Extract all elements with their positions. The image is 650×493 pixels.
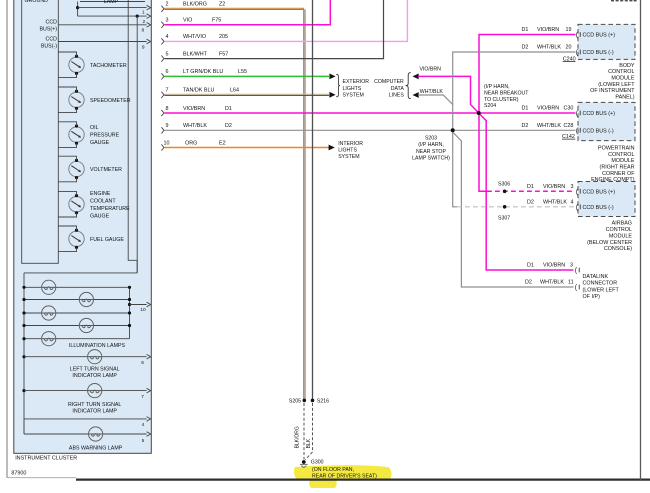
svg-text:MODULE: MODULE	[609, 233, 632, 239]
svg-text:BLK: BLK	[306, 438, 312, 448]
svg-text:WHT/BLK: WHT/BLK	[183, 123, 207, 129]
svg-text:PANEL): PANEL)	[615, 94, 634, 100]
svg-text:TO CLUSTER): TO CLUSTER)	[484, 97, 519, 103]
svg-text:INDICATOR LAMP: INDICATOR LAMP	[72, 373, 117, 379]
svg-text:LINES: LINES	[389, 93, 405, 99]
svg-text:(LOWER LEFT: (LOWER LEFT	[583, 287, 620, 293]
svg-text:S204: S204	[484, 103, 496, 109]
svg-text:CCD: CCD	[46, 36, 58, 42]
svg-text:D2: D2	[522, 45, 529, 51]
svg-text:TACHOMETER: TACHOMETER	[90, 63, 127, 69]
svg-text:ORG: ORG	[185, 140, 197, 146]
svg-text:OIL: OIL	[90, 125, 99, 131]
svg-text:VIO: VIO	[183, 18, 192, 24]
svg-text:GAUGE: GAUGE	[90, 213, 110, 219]
svg-text:G300: G300	[311, 459, 324, 465]
svg-text:LIGHTS: LIGHTS	[338, 148, 357, 154]
svg-text:PRESSURE: PRESSURE	[90, 133, 120, 139]
svg-text:SYSTEM: SYSTEM	[343, 93, 364, 99]
svg-text:LT GRN/DK BLU: LT GRN/DK BLU	[183, 69, 223, 75]
svg-text:9: 9	[166, 123, 169, 129]
svg-text:OF I/P): OF I/P)	[583, 294, 601, 300]
svg-text:CONTROL: CONTROL	[608, 69, 634, 75]
svg-text:COMPUTER: COMPUTER	[374, 79, 404, 85]
svg-text:(BELOW CENTER: (BELOW CENTER	[587, 240, 632, 246]
svg-text:POWERTRAIN: POWERTRAIN	[598, 146, 635, 152]
svg-text:CONTROL: CONTROL	[608, 152, 634, 158]
svg-text:2: 2	[166, 2, 169, 8]
svg-text:L55: L55	[238, 69, 247, 75]
svg-text:BUS(+): BUS(+)	[39, 27, 57, 33]
svg-text:10: 10	[164, 140, 170, 146]
svg-text:BODY: BODY	[619, 63, 635, 69]
svg-text:S203: S203	[425, 136, 437, 142]
svg-text:LAMP: LAMP	[104, 0, 119, 5]
svg-text:CCD BUS (-): CCD BUS (-)	[583, 205, 614, 211]
svg-text:LIGHTS: LIGHTS	[343, 86, 362, 92]
svg-text:VIO/BRN: VIO/BRN	[537, 106, 559, 112]
svg-text:D1: D1	[527, 263, 534, 269]
svg-text:BLK/ORG: BLK/ORG	[295, 426, 301, 448]
svg-text:D1: D1	[225, 106, 232, 112]
svg-text:SPEEDOMETER: SPEEDOMETER	[90, 98, 131, 104]
svg-text:CCD BUS (+): CCD BUS (+)	[583, 111, 616, 117]
svg-text:WHT/BLK: WHT/BLK	[543, 200, 567, 206]
svg-text:D1: D1	[522, 106, 529, 112]
svg-text:NEAR STOP: NEAR STOP	[416, 149, 446, 155]
svg-text:10: 10	[140, 307, 146, 313]
svg-text:7: 7	[141, 394, 144, 400]
svg-text:D2: D2	[225, 123, 232, 129]
svg-text:REAR OF DRIVER'S SEAT): REAR OF DRIVER'S SEAT)	[312, 473, 377, 479]
svg-text:CCD BUS (+): CCD BUS (+)	[583, 33, 616, 39]
svg-text:D1: D1	[527, 184, 534, 190]
svg-text:BUS(-): BUS(-)	[41, 43, 57, 49]
svg-text:TEMPERATURE: TEMPERATURE	[90, 206, 130, 212]
svg-text:Z2: Z2	[219, 2, 225, 8]
svg-text:GAUGE: GAUGE	[90, 140, 110, 146]
svg-text:5: 5	[142, 438, 145, 444]
svg-text:MODULE: MODULE	[611, 76, 634, 82]
svg-text:LEFT TURN SIGNAL: LEFT TURN SIGNAL	[70, 367, 120, 373]
svg-text:BLK/ORG: BLK/ORG	[183, 2, 207, 8]
svg-text:205: 205	[219, 34, 228, 40]
svg-text:9: 9	[142, 44, 145, 50]
svg-text:1: 1	[142, 10, 145, 16]
svg-text:CORNER OF: CORNER OF	[602, 171, 635, 177]
svg-text:4: 4	[166, 34, 169, 40]
svg-text:WHT/BLK: WHT/BLK	[540, 280, 564, 286]
svg-text:CONNECTOR: CONNECTOR	[583, 281, 618, 287]
svg-text:(I/P HARN,: (I/P HARN,	[418, 142, 444, 148]
svg-text:(ON FLOOR PAN,: (ON FLOOR PAN,	[312, 467, 354, 473]
svg-text:WHT/BLK: WHT/BLK	[537, 45, 561, 51]
svg-text:TAN/DK BLU: TAN/DK BLU	[183, 88, 214, 94]
svg-text:LAMP SWITCH): LAMP SWITCH)	[412, 155, 450, 161]
svg-text:BLK/WHT: BLK/WHT	[183, 51, 208, 57]
svg-text:(I/P HARN,: (I/P HARN,	[484, 84, 510, 90]
svg-text:11: 11	[568, 280, 574, 286]
svg-text:8: 8	[141, 27, 144, 33]
svg-text:VIO/BRN: VIO/BRN	[543, 263, 565, 269]
svg-text:CCD BUS (-): CCD BUS (-)	[583, 129, 614, 135]
svg-text:7: 7	[166, 88, 169, 94]
svg-text:DATALINK: DATALINK	[583, 274, 609, 280]
svg-text:CONSOLE): CONSOLE)	[604, 246, 632, 252]
svg-text:ILLUMINATION LAMPS: ILLUMINATION LAMPS	[69, 343, 126, 349]
svg-text:4: 4	[142, 422, 145, 428]
svg-text:5: 5	[166, 51, 169, 57]
svg-text:CCD: CCD	[46, 20, 58, 26]
svg-text:D2: D2	[525, 280, 532, 286]
svg-text:S307: S307	[498, 216, 510, 222]
svg-text:WHT/VIO: WHT/VIO	[183, 34, 206, 40]
svg-text:C28: C28	[564, 123, 574, 129]
svg-text:S205: S205	[289, 399, 301, 405]
svg-text:RIGHT TURN SIGNAL: RIGHT TURN SIGNAL	[68, 402, 121, 408]
svg-text:6: 6	[166, 69, 169, 75]
svg-text:DATA: DATA	[391, 86, 405, 92]
svg-text:(RIGHT REAR: (RIGHT REAR	[600, 165, 635, 171]
svg-text:WHT/BLK: WHT/BLK	[420, 89, 444, 95]
svg-text:EXTERIOR: EXTERIOR	[343, 79, 370, 85]
svg-text:VIO/BRN: VIO/BRN	[183, 106, 205, 112]
svg-text:F57: F57	[219, 51, 228, 57]
svg-text:COOLANT: COOLANT	[90, 199, 116, 205]
svg-text:2: 2	[142, 19, 145, 25]
svg-text:AIRBAG: AIRBAG	[612, 221, 632, 227]
svg-text:D2: D2	[522, 123, 529, 129]
svg-text:INTERIOR: INTERIOR	[338, 141, 363, 147]
svg-text:4: 4	[571, 200, 574, 206]
svg-text:ABS WARNING LAMP: ABS WARNING LAMP	[69, 446, 123, 452]
svg-text:VOLTMETER: VOLTMETER	[90, 167, 122, 173]
svg-text:E2: E2	[219, 140, 226, 146]
svg-text:C30: C30	[564, 106, 574, 112]
svg-text:19: 19	[566, 27, 572, 33]
svg-text:INDICATOR LAMP: INDICATOR LAMP	[72, 409, 117, 415]
svg-text:S216: S216	[317, 399, 329, 405]
svg-text:FUEL GAUGE: FUEL GAUGE	[90, 237, 124, 243]
svg-text:INSTRUMENT CLUSTER: INSTRUMENT CLUSTER	[15, 455, 77, 461]
svg-text:S306: S306	[498, 181, 510, 187]
svg-text:VIO/BRN: VIO/BRN	[420, 67, 442, 73]
svg-text:3: 3	[166, 18, 169, 24]
svg-text:CCD BUS (-): CCD BUS (-)	[583, 50, 614, 56]
svg-text:3: 3	[570, 263, 573, 269]
svg-text:L64: L64	[230, 88, 239, 94]
svg-text:CCD BUS (+): CCD BUS (+)	[583, 190, 616, 196]
svg-text:F75: F75	[212, 18, 221, 24]
svg-text:(LOWER LEFT: (LOWER LEFT	[598, 82, 635, 88]
svg-text:VIO/BRN: VIO/BRN	[543, 184, 565, 190]
svg-text:NEAR BREAKOUT: NEAR BREAKOUT	[484, 90, 529, 96]
svg-text:SYSTEM: SYSTEM	[338, 154, 359, 160]
svg-text:CONTROL: CONTROL	[606, 227, 632, 233]
svg-text:87900: 87900	[11, 471, 26, 477]
svg-text:OF INSTRUMENT: OF INSTRUMENT	[590, 88, 635, 94]
svg-text:MODULE: MODULE	[611, 158, 634, 164]
svg-text:VIO/BRN: VIO/BRN	[537, 27, 559, 33]
svg-text:8: 8	[166, 106, 169, 112]
svg-text:3: 3	[571, 184, 574, 190]
svg-text:20: 20	[566, 45, 572, 51]
svg-text:6: 6	[141, 360, 144, 366]
svg-text:D1: D1	[522, 27, 529, 33]
svg-text:ENGINE: ENGINE	[90, 191, 111, 197]
svg-text:WHT/BLK: WHT/BLK	[537, 123, 561, 129]
svg-text:D2: D2	[527, 200, 534, 206]
svg-text:GROUND: GROUND	[24, 0, 48, 4]
